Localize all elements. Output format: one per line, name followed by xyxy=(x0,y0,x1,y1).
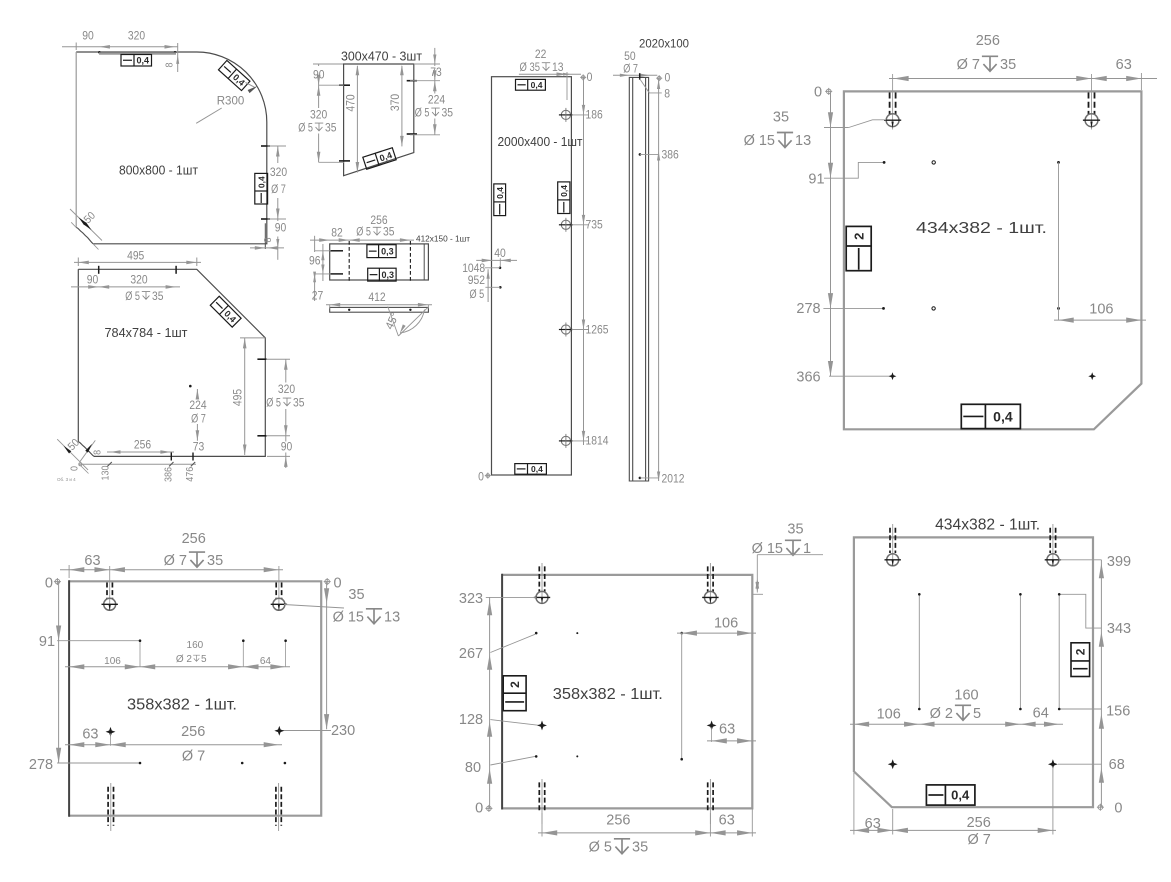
tolerance box 0,4 xyxy=(926,785,975,805)
svg-text:73: 73 xyxy=(430,67,442,79)
svg-text:2012: 2012 xyxy=(662,474,685,486)
svg-text:256: 256 xyxy=(606,813,630,829)
svg-text:0,4: 0,4 xyxy=(531,80,543,90)
tolerance box 0,4 top xyxy=(516,79,546,90)
svg-text:63: 63 xyxy=(1116,57,1132,73)
svg-text:90: 90 xyxy=(82,31,94,43)
svg-text:0,4: 0,4 xyxy=(951,788,970,803)
svg-text:5: 5 xyxy=(973,706,981,722)
bottom holes (stars) xyxy=(889,372,897,380)
svg-text:0: 0 xyxy=(475,801,483,817)
svg-text:300x470 - 3шт: 300x470 - 3шт xyxy=(341,50,422,64)
strip 2020x100 outline xyxy=(629,77,648,481)
svg-text:0: 0 xyxy=(587,72,593,84)
svg-text:13: 13 xyxy=(384,610,400,626)
svg-text:Ø 5: Ø 5 xyxy=(589,840,612,856)
svg-text:160: 160 xyxy=(954,688,978,704)
bottom rotated labels xyxy=(79,463,196,465)
svg-text:106: 106 xyxy=(714,615,738,631)
svg-text:2: 2 xyxy=(1074,648,1088,655)
svg-text:784x784 - 1шт: 784x784 - 1шт xyxy=(105,326,188,340)
svg-text:91: 91 xyxy=(808,172,824,188)
panel 434x382 top-right outline xyxy=(844,91,1142,429)
top mounting holes xyxy=(892,74,894,130)
dots row 2 xyxy=(139,762,142,765)
hole dashes top edge xyxy=(98,266,100,274)
svg-text:320: 320 xyxy=(278,384,295,396)
svg-text:Ø 7: Ø 7 xyxy=(182,749,205,765)
rotated 0,4 box on arc xyxy=(218,60,249,90)
rotated 0,4 box right edge xyxy=(255,173,268,204)
chamfer bottom-left xyxy=(76,228,93,244)
top mounting holes xyxy=(541,563,543,604)
svg-text:186: 186 xyxy=(586,110,603,122)
svg-text:0: 0 xyxy=(334,575,342,591)
svg-text:8: 8 xyxy=(165,62,176,67)
chamfer dim 50 xyxy=(70,209,102,241)
svg-text:Ø 15: Ø 15 xyxy=(333,610,364,626)
svg-text:2000x400 - 1шт: 2000x400 - 1шт xyxy=(498,135,583,149)
svg-text:386: 386 xyxy=(163,467,174,482)
svg-text:91: 91 xyxy=(39,634,55,650)
svg-text:1814: 1814 xyxy=(586,436,610,448)
svg-text:0,3: 0,3 xyxy=(381,270,394,280)
inner top dim 90/320 xyxy=(71,286,180,288)
svg-text:8: 8 xyxy=(93,450,104,455)
svg-text:35: 35 xyxy=(442,107,454,119)
svg-text:224: 224 xyxy=(428,95,446,107)
svg-text:434x382 - 1шт.: 434x382 - 1шт. xyxy=(916,220,1047,237)
left dim line 91 / 278 xyxy=(58,582,60,763)
svg-text:2: 2 xyxy=(851,233,866,240)
svg-text:Об. 3 и 4: Об. 3 и 4 xyxy=(57,477,76,482)
leaders left xyxy=(486,596,537,598)
svg-text:35: 35 xyxy=(632,840,648,856)
svg-text:0,4: 0,4 xyxy=(559,185,569,197)
svg-text:2: 2 xyxy=(508,681,522,688)
chamfer dim 50 bottom-left xyxy=(57,439,88,470)
right vertical dim 495 xyxy=(240,337,265,339)
svg-text:160: 160 xyxy=(187,640,204,651)
dots rows xyxy=(535,632,538,635)
svg-text:35: 35 xyxy=(207,553,223,569)
edge dashes left xyxy=(330,250,343,252)
svg-text:73: 73 xyxy=(193,442,205,454)
dots row 1 xyxy=(139,639,142,642)
svg-text:96: 96 xyxy=(309,255,321,267)
panel 800x800 outline xyxy=(76,52,267,244)
svg-text:35: 35 xyxy=(383,227,395,239)
svg-text:Ø 7: Ø 7 xyxy=(957,57,980,73)
svg-text:63: 63 xyxy=(82,727,98,743)
left dim line xyxy=(489,597,491,808)
tolerance box 2 left xyxy=(846,226,871,270)
svg-text:495: 495 xyxy=(127,250,144,262)
bottom 0 marker xyxy=(485,473,491,479)
dim 8 right of top xyxy=(177,43,179,72)
svg-text:63: 63 xyxy=(84,553,100,569)
svg-text:8: 8 xyxy=(263,237,274,242)
svg-text:412x150 - 1шт: 412x150 - 1шт xyxy=(416,234,470,244)
svg-text:Ø 5: Ø 5 xyxy=(125,291,140,303)
rotated 0,4 box on diagonal xyxy=(210,296,241,327)
svg-text:434x382 - 1шт.: 434x382 - 1шт. xyxy=(935,516,1040,533)
svg-text:256: 256 xyxy=(370,215,387,227)
hole at 186 xyxy=(561,110,570,119)
svg-text:267: 267 xyxy=(459,646,483,662)
right leaders xyxy=(1059,559,1102,561)
svg-text:278: 278 xyxy=(29,757,53,773)
svg-text:90: 90 xyxy=(87,274,99,286)
tolerance box 2 xyxy=(503,676,526,711)
svg-text:0: 0 xyxy=(665,73,671,85)
svg-text:Ø 5: Ø 5 xyxy=(266,397,281,409)
svg-text:358x382 - 1шт.: 358x382 - 1шт. xyxy=(127,697,237,714)
dim 412 xyxy=(329,305,331,309)
svg-text:0,3: 0,3 xyxy=(381,246,394,256)
top dimension 90/320 xyxy=(62,46,178,48)
svg-text:35: 35 xyxy=(773,110,789,126)
svg-text:0,4: 0,4 xyxy=(531,464,543,474)
panel 358x382 bottom-middle outline xyxy=(502,575,752,809)
svg-text:0: 0 xyxy=(1114,801,1122,817)
bottom edge slots xyxy=(541,779,543,824)
svg-text:Ø 7: Ø 7 xyxy=(623,64,638,76)
svg-text:256: 256 xyxy=(181,724,205,740)
svg-text:Ø 15: Ø 15 xyxy=(744,133,775,149)
svg-text:358x382 - 1шт.: 358x382 - 1шт. xyxy=(553,686,663,703)
hole centerlines dashed xyxy=(349,241,410,283)
chamfer bottom-left xyxy=(78,442,94,457)
dim 27 xyxy=(314,274,316,301)
bottom right dims 90 / 8 xyxy=(264,223,266,249)
svg-text:320: 320 xyxy=(270,167,287,179)
svg-text:256: 256 xyxy=(182,531,206,547)
top mounting holes xyxy=(892,524,894,566)
svg-text:735: 735 xyxy=(586,220,603,232)
right dims 73 / 224 xyxy=(414,63,440,65)
svg-text:Ø 7: Ø 7 xyxy=(271,184,286,196)
svg-text:80: 80 xyxy=(465,760,481,776)
svg-text:256: 256 xyxy=(134,440,151,452)
svg-text:128: 128 xyxy=(459,712,483,728)
svg-text:278: 278 xyxy=(796,301,820,317)
svg-text:90: 90 xyxy=(313,69,325,81)
svg-text:470: 470 xyxy=(345,94,357,111)
strip 0 / 8 labels xyxy=(656,75,662,81)
svg-text:1265: 1265 xyxy=(586,324,609,336)
svg-text:106: 106 xyxy=(877,707,901,723)
svg-text:35: 35 xyxy=(293,397,305,409)
mid dim 224 / O7 xyxy=(189,385,192,388)
svg-text:13: 13 xyxy=(552,62,564,74)
hole at 1265 xyxy=(561,325,570,334)
svg-text:63: 63 xyxy=(719,722,735,738)
svg-text:366: 366 xyxy=(796,370,820,386)
panel 434x382 bottom-right outline xyxy=(854,537,1093,807)
dim 470 vertical xyxy=(356,66,358,173)
bottom edge slots xyxy=(110,783,112,831)
svg-text:0: 0 xyxy=(478,472,484,484)
strip 386 xyxy=(639,153,642,156)
strip 2012 xyxy=(639,477,642,480)
dim 106 xyxy=(1058,162,1060,320)
right column line xyxy=(681,633,683,759)
edge band thick line top xyxy=(99,52,176,54)
bottom strip xyxy=(330,307,429,312)
svg-text:Ø 5: Ø 5 xyxy=(470,289,485,301)
svg-text:323: 323 xyxy=(459,591,483,607)
panel 412x150 outline xyxy=(330,244,429,280)
svg-text:Ø 35: Ø 35 xyxy=(520,62,541,74)
svg-text:Ø 5: Ø 5 xyxy=(356,227,371,239)
svg-text:130: 130 xyxy=(100,465,111,480)
svg-text:156: 156 xyxy=(1106,704,1130,720)
panel 784x784 outline xyxy=(78,269,265,456)
panel 2000x400 outline xyxy=(492,77,572,475)
svg-text:230: 230 xyxy=(331,723,355,739)
svg-text:68: 68 xyxy=(1109,757,1125,773)
svg-text:64: 64 xyxy=(1033,706,1049,722)
tolerance box 0,4 top xyxy=(121,55,152,67)
svg-text:8: 8 xyxy=(664,89,670,101)
svg-text:800x800 - 1шт: 800x800 - 1шт xyxy=(119,164,198,178)
svg-text:35: 35 xyxy=(152,291,164,303)
svg-text:64: 64 xyxy=(260,656,272,667)
panel 300x470 outline xyxy=(344,64,414,176)
svg-text:476: 476 xyxy=(185,466,196,481)
svg-text:386: 386 xyxy=(662,150,679,162)
svg-text:1048: 1048 xyxy=(462,263,485,275)
panel 358x382 bottom-left outline xyxy=(69,581,321,815)
svg-text:412: 412 xyxy=(368,292,385,304)
svg-text:320: 320 xyxy=(128,31,145,43)
svg-text:0,4: 0,4 xyxy=(495,187,505,199)
svg-text:256: 256 xyxy=(976,33,1000,49)
svg-text:2020x100: 2020x100 xyxy=(639,39,689,51)
right side dim 320 / O7 xyxy=(261,145,270,147)
svg-text:35: 35 xyxy=(348,587,364,603)
left dims 90 / 320 xyxy=(313,63,343,65)
svg-text:90: 90 xyxy=(275,223,287,235)
svg-text:106: 106 xyxy=(104,656,121,667)
top mounting holes xyxy=(109,566,111,611)
hole columns xyxy=(918,594,920,709)
tolerance box 0,4 bottom xyxy=(961,404,1020,428)
45 degree note xyxy=(388,307,399,337)
svg-text:495: 495 xyxy=(233,389,245,406)
svg-text:63: 63 xyxy=(719,812,735,828)
svg-text:Ø 2: Ø 2 xyxy=(930,706,953,722)
svg-text:343: 343 xyxy=(1107,621,1131,637)
svg-text:0: 0 xyxy=(45,575,53,591)
svg-text:0: 0 xyxy=(814,85,822,101)
svg-text:952: 952 xyxy=(468,275,485,287)
svg-text:399: 399 xyxy=(1107,554,1131,570)
svg-text:Ø 5: Ø 5 xyxy=(298,122,313,134)
svg-text:Ø 2: Ø 2 xyxy=(176,654,193,665)
tolerance box 2 right xyxy=(1071,643,1090,677)
svg-text:Ø 7: Ø 7 xyxy=(164,553,187,569)
svg-text:13: 13 xyxy=(795,133,811,149)
svg-text:0: 0 xyxy=(69,466,80,471)
svg-text:0,4: 0,4 xyxy=(993,408,1013,424)
svg-text:Ø 7: Ø 7 xyxy=(968,832,991,848)
top dim 495 xyxy=(77,258,79,267)
svg-text:35: 35 xyxy=(325,122,337,134)
svg-text:22: 22 xyxy=(535,49,547,61)
bottom holes stars xyxy=(888,759,898,769)
svg-text:370: 370 xyxy=(390,94,402,111)
svg-text:320: 320 xyxy=(310,109,327,121)
svg-text:Ø 7: Ø 7 xyxy=(191,413,206,425)
hole dots rows xyxy=(883,161,886,164)
svg-text:224: 224 xyxy=(189,400,207,412)
svg-text:0,4: 0,4 xyxy=(136,55,149,65)
bottom dim 256 xyxy=(107,451,174,453)
dim 370 vertical xyxy=(401,66,403,146)
right dim line xyxy=(1100,560,1102,807)
svg-text:106: 106 xyxy=(1089,302,1113,318)
tolerance boxes 0,3 xyxy=(367,245,396,258)
svg-text:27: 27 xyxy=(312,290,324,302)
tolerance box 0,4 bottom xyxy=(515,464,547,475)
svg-text:Ø 5: Ø 5 xyxy=(415,107,430,119)
right margin dims 320 / O5-35 / 90 xyxy=(257,358,266,360)
dim 96 xyxy=(315,250,331,252)
svg-text:320: 320 xyxy=(130,274,147,286)
svg-text:5: 5 xyxy=(201,654,207,665)
left dim line xyxy=(830,91,832,376)
hole at 1814 xyxy=(561,436,570,445)
svg-text:90: 90 xyxy=(281,442,293,454)
svg-text:0,4: 0,4 xyxy=(256,176,266,188)
svg-text:35: 35 xyxy=(1000,57,1016,73)
svg-text:256: 256 xyxy=(967,815,991,831)
rotated 0,4 boxes mid xyxy=(494,184,506,216)
svg-text:50: 50 xyxy=(624,51,636,63)
mid holes stars xyxy=(537,720,547,730)
svg-text:82: 82 xyxy=(331,227,343,239)
svg-text:35: 35 xyxy=(787,522,803,538)
hole at 735 xyxy=(561,220,570,229)
svg-text:R300: R300 xyxy=(217,96,245,108)
rotated 0,4 box on bottom diagonal xyxy=(363,148,396,170)
